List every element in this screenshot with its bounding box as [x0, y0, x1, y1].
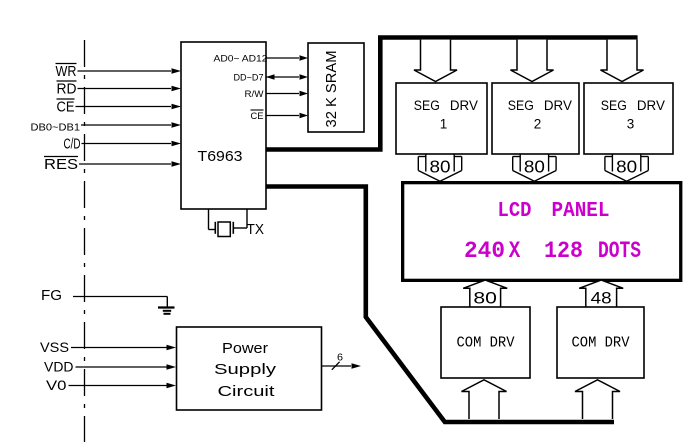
- label 80: [430, 157, 451, 177]
- thick bus from T6963 to SEG drivers (top): [266, 38, 638, 150]
- svg-text:PANEL: PANEL: [552, 200, 610, 223]
- block SEG DRV 1: [396, 83, 487, 154]
- hollow arrow SEG DRV to LCD panel: [418, 154, 461, 181]
- svg-text:DOTS: DOTS: [598, 238, 641, 264]
- signal CE label wire and arrowhead into T6963: [57, 99, 182, 116]
- svg-text:CE: CE: [57, 99, 75, 116]
- svg-text:AD0~ AD12: AD0~ AD12: [214, 54, 268, 65]
- pin R/W wire between T6963 and SRAM: [245, 89, 309, 100]
- svg-text:DRV: DRV: [637, 98, 665, 113]
- power supply output wire with bus-width slash and arrowhead: [322, 353, 361, 370]
- block Power Supply Circuit: [177, 327, 322, 410]
- hollow arrow SEG DRV to LCD panel: [513, 154, 556, 181]
- signal FG label and wire: [41, 287, 167, 304]
- svg-text:Supply: Supply: [214, 361, 277, 378]
- svg-text:32 K SRAM: 32 K SRAM: [323, 51, 340, 128]
- hollow bus arrow into COM DRV: [462, 380, 507, 419]
- dashed host-interface boundary line: [84, 40, 86, 442]
- block COM DRV 1: [441, 307, 530, 378]
- signal RES label wire and arrowhead into T6963: [44, 156, 181, 173]
- svg-text:DB0~DB1: DB0~DB1: [31, 122, 81, 134]
- label SEG DRV 1: [414, 98, 478, 132]
- label SEG DRV 3: [601, 98, 665, 132]
- svg-text:SEG: SEG: [601, 98, 627, 113]
- svg-text:80: 80: [473, 289, 497, 308]
- label T6963: [198, 148, 243, 165]
- signal RD label wire and arrowhead into T6963: [57, 81, 182, 98]
- svg-text:C/D: C/D: [64, 136, 81, 153]
- pin CE wire between T6963 and SRAM: [251, 110, 309, 122]
- signal DB0~DB1 label wire and arrowhead into T6963: [31, 122, 182, 134]
- block COM DRV 2: [557, 307, 644, 378]
- label 240 X 128 DOTS: [464, 238, 641, 264]
- svg-text:80: 80: [430, 157, 451, 177]
- svg-text:Circuit: Circuit: [218, 383, 276, 400]
- thick bus from T6963 to COM bus (bottom): [266, 187, 614, 423]
- block 32K SRAM: [308, 43, 364, 132]
- signal WR label wire and arrowhead into T6963: [56, 63, 182, 80]
- label 80: [473, 289, 497, 308]
- hollow bus arrow into SEG DRV 2: [511, 40, 554, 82]
- svg-text:240: 240: [464, 238, 505, 264]
- svg-text:TX: TX: [247, 221, 265, 238]
- svg-text:CE: CE: [251, 111, 264, 122]
- signal C/D label wire and arrowhead into T6963: [64, 136, 182, 153]
- svg-text:WR: WR: [56, 63, 77, 80]
- hollow bus arrow into COM DRV: [575, 380, 620, 419]
- block T6963 controller: [181, 42, 266, 209]
- svg-text:DRV: DRV: [450, 98, 478, 113]
- label 32 K SRAM rotated: [323, 51, 340, 128]
- svg-text:80: 80: [616, 157, 637, 177]
- label SEG DRV 2: [508, 98, 572, 132]
- svg-text:COM DRV: COM DRV: [457, 335, 515, 352]
- block SEG DRV 3: [584, 83, 673, 154]
- svg-text:DRV: DRV: [544, 98, 572, 113]
- svg-text:Power: Power: [222, 340, 268, 357]
- svg-text:RES: RES: [44, 156, 78, 173]
- svg-text:FG: FG: [41, 287, 62, 304]
- svg-text:48: 48: [591, 289, 612, 308]
- label COM DRV 2: [572, 335, 630, 352]
- svg-text:T6963: T6963: [198, 148, 243, 165]
- svg-text:SEG: SEG: [414, 98, 440, 113]
- svg-text:X: X: [509, 238, 521, 264]
- svg-text:1: 1: [440, 117, 448, 132]
- signal V0 label wire and arrowhead into power supply: [46, 377, 176, 393]
- label 80: [524, 157, 545, 177]
- svg-text:6: 6: [337, 353, 343, 364]
- label 80: [616, 157, 637, 177]
- signal VDD label wire and arrowhead into power supply: [44, 359, 176, 375]
- svg-text:3: 3: [627, 117, 635, 132]
- pin DD~D7 wire between T6963 and SRAM: [234, 73, 309, 84]
- svg-text:DD~D7: DD~D7: [234, 73, 264, 84]
- pin AD0~ AD12 wire between T6963 and SRAM: [214, 54, 309, 65]
- hollow bus arrow into SEG DRV 3: [601, 40, 644, 82]
- svg-text:80: 80: [524, 157, 545, 177]
- label TX: [247, 221, 265, 238]
- svg-text:SEG: SEG: [508, 98, 534, 113]
- label Power Supply Circuit: [214, 340, 277, 400]
- signal VSS label wire and arrowhead into power supply: [40, 339, 176, 355]
- svg-text:VSS: VSS: [40, 339, 69, 355]
- svg-text:VDD: VDD: [44, 359, 74, 375]
- hollow arrow SEG DRV to LCD panel: [605, 154, 648, 181]
- svg-text:R/W: R/W: [245, 89, 264, 100]
- ground symbol: [158, 297, 175, 314]
- svg-text:128: 128: [544, 238, 583, 264]
- label 48: [591, 289, 612, 308]
- svg-text:RD: RD: [57, 81, 77, 98]
- block SEG DRV 2: [492, 83, 579, 154]
- svg-text:2: 2: [534, 117, 542, 132]
- svg-text:COM DRV: COM DRV: [572, 335, 630, 352]
- svg-text:V0: V0: [46, 377, 67, 393]
- crystal TX oscillator: [209, 210, 248, 237]
- svg-text:LCD: LCD: [498, 200, 532, 223]
- label LCD PANEL: [498, 200, 610, 223]
- hollow arrow COM DRV to LCD panel (80 lines): [463, 280, 507, 307]
- label COM DRV 1: [457, 335, 515, 352]
- hollow bus arrow into SEG DRV 1: [414, 40, 457, 82]
- block LCD PANEL: [403, 183, 681, 281]
- hollow arrow COM DRV to LCD panel (48 lines): [579, 280, 623, 307]
